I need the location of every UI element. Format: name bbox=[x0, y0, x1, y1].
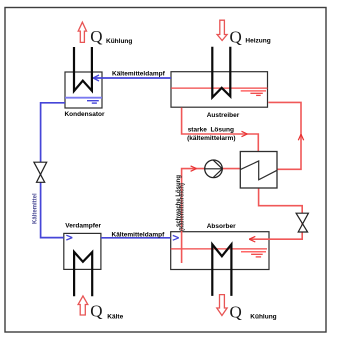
absorber liquid level line bbox=[171, 248, 267, 250]
svg-text:Q: Q bbox=[90, 302, 102, 321]
wire: weak solution absorber->pump->hx (red) bbox=[182, 169, 241, 263]
heat arrow down at absorber (Q out) bbox=[217, 295, 227, 316]
svg-text:Verdampfer: Verdampfer bbox=[65, 223, 101, 230]
heat arrow up at condenser (Q out) bbox=[78, 22, 86, 42]
wire: condensate line condenser->valve->evaporator (blue) bbox=[41, 103, 65, 238]
wire: vapour line evaporator->absorber (blue) bbox=[101, 237, 171, 239]
heat arrow down at generator (Q in) bbox=[217, 20, 227, 40]
svg-text:Q: Q bbox=[90, 27, 102, 46]
svg-text:(kältemittelreich): (kältemittelreich) bbox=[179, 183, 185, 231]
wire: strong solution generator->hx top (red) bbox=[182, 108, 259, 152]
expansion valve V2 (solution) bbox=[296, 213, 308, 232]
absorber coil tubes (black M) bbox=[212, 244, 231, 296]
svg-text:Austreiber: Austreiber bbox=[207, 112, 240, 119]
svg-text:Kältemitteldampf: Kältemitteldampf bbox=[112, 71, 166, 78]
arrow into absorber (red) bbox=[249, 236, 255, 242]
svg-text:(kältemittelarm): (kältemittelarm) bbox=[187, 135, 235, 142]
condenser coil tubes (black W) bbox=[74, 47, 92, 91]
svg-text:Kühlung: Kühlung bbox=[106, 38, 132, 45]
generator liquid level line bbox=[171, 87, 268, 89]
pump P bbox=[205, 160, 223, 178]
arrow into absorber bbox=[173, 235, 179, 240]
svg-text:Kühlung: Kühlung bbox=[250, 313, 276, 320]
wire: refrigerant vapour line generator->condenser (blue) bbox=[93, 77, 171, 79]
svg-text:Kälte: Kälte bbox=[107, 314, 123, 321]
wire: hx bottom->valve->absorber (red) bbox=[249, 188, 302, 239]
absorber surface mark bbox=[241, 251, 266, 253]
arrow into condenser bbox=[93, 75, 99, 81]
svg-text:Q: Q bbox=[230, 303, 242, 322]
svg-text:Kältemittel: Kältemittel bbox=[33, 193, 39, 224]
svg-text:Heizung: Heizung bbox=[245, 38, 270, 45]
evaporator box (Verdampfer) bbox=[64, 233, 101, 269]
condenser liquid level line bbox=[65, 97, 102, 99]
svg-text:Kältemitteldampf: Kältemitteldampf bbox=[112, 231, 166, 238]
arrow up on riser bbox=[298, 134, 303, 140]
condenser surface mark bbox=[87, 100, 99, 102]
heat arrow up at evaporator (Q in) bbox=[78, 296, 88, 315]
arrow toward pump bbox=[191, 166, 197, 171]
wire: hx->generator right side (red) bbox=[268, 102, 301, 169]
evaporator coil tubes (black M) bbox=[74, 252, 92, 296]
svg-text:Kondensator: Kondensator bbox=[64, 111, 105, 118]
svg-text:Q: Q bbox=[230, 28, 242, 47]
svg-text:Absorber: Absorber bbox=[207, 223, 236, 230]
svg-text:starke Lösung: starke Lösung bbox=[188, 126, 234, 133]
absorber box bbox=[171, 232, 269, 270]
generator coil tubes (black W) bbox=[212, 47, 230, 98]
arrow on strong solution line bbox=[242, 131, 248, 136]
condenser box K bbox=[65, 72, 102, 108]
expansion valve V1 (refrigerant) bbox=[34, 162, 47, 182]
generator surface mark bbox=[241, 90, 266, 92]
heat exchanger box HX bbox=[240, 152, 277, 189]
arrow into evaporator bbox=[66, 235, 72, 240]
generator box (Austreiber) bbox=[171, 72, 268, 108]
